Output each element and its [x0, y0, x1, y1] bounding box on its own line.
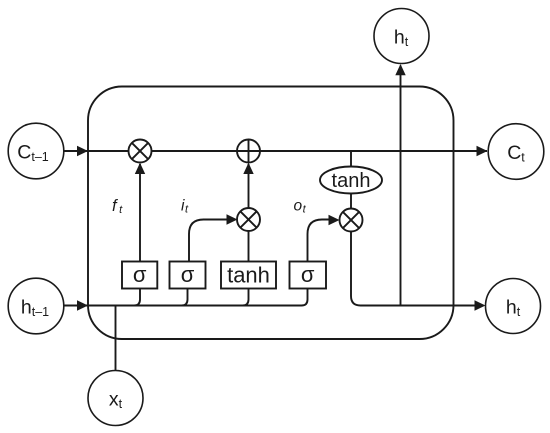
wire sigma1 bottom elbow to h-line: [134, 289, 140, 306]
arrowhead into node h_t right: [475, 300, 486, 310]
svg-text:σ: σ: [133, 262, 147, 287]
arrowhead up into top h_t: [395, 64, 405, 75]
arrowhead into cell on C-line: [77, 146, 88, 156]
multiply node forget gate: [129, 140, 152, 163]
wire input multiply up to add node: [248, 164, 250, 209]
wire sigma2 bottom elbow to h-line: [182, 289, 188, 306]
arrowhead right into input multiply: [227, 214, 238, 224]
multiply node output gate: [340, 209, 363, 232]
tanh ellipse: [320, 167, 382, 194]
arrowhead up into add node: [243, 163, 253, 174]
svg-text:σ: σ: [181, 262, 195, 287]
multiply node input gate: [237, 208, 260, 231]
svg-text:σ: σ: [301, 262, 315, 287]
wire h-line from h_{t-1}: [64, 289, 308, 306]
wire C-line branch down to tanh ellipse: [350, 151, 352, 167]
node h_t top: [374, 9, 429, 64]
arrowhead into node Ct: [477, 146, 488, 156]
wire tanh-box up to input multiply: [248, 231, 250, 262]
wire junction up to top h_t: [400, 66, 402, 306]
gate box sigma o: [290, 262, 327, 289]
gate box tanh: [221, 262, 276, 289]
node h_t right: [486, 279, 541, 334]
wire C-line horizontal: [64, 150, 488, 152]
wire sigma1 up to multiply node: [139, 164, 141, 262]
wire sigma3 elbow to output multiply: [308, 220, 331, 262]
wire from x_t up to h-line: [115, 306, 117, 371]
node C_{t-1}: [8, 123, 64, 179]
node h_{t-1}: [8, 278, 64, 334]
wire tanh-box bottom elbow to h-line: [243, 289, 249, 306]
arrowhead into cell on h-line: [77, 300, 88, 310]
wire tanh ellipse down to output multiply: [350, 193, 352, 209]
svg-text:tanh: tanh: [332, 170, 371, 192]
gate box sigma f: [122, 262, 157, 289]
cell body rounded rectangle: [88, 87, 454, 340]
arrowhead up into forget multiply: [135, 163, 145, 174]
gate box sigma i: [170, 262, 206, 289]
node x_t: [88, 371, 143, 426]
wire sigma2 elbow to input multiply: [189, 220, 228, 262]
svg-text:tanh: tanh: [227, 263, 270, 288]
arrowhead right into output multiply: [329, 215, 340, 225]
wire output multiply down and right to h_t: [351, 232, 476, 306]
node C_t: [488, 124, 544, 180]
add node: [237, 140, 260, 163]
